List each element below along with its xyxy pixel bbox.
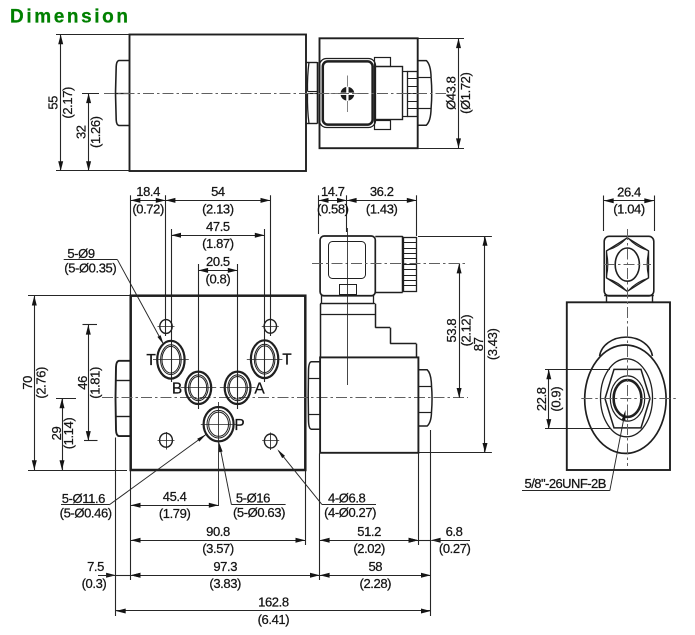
svg-text:Ø43.8: Ø43.8 xyxy=(443,76,458,110)
svg-text:(5-Ø0.35): (5-Ø0.35) xyxy=(64,260,116,275)
svg-text:(2.02): (2.02) xyxy=(353,541,385,556)
svg-text:(2.28): (2.28) xyxy=(360,576,392,591)
svg-text:(1.26): (1.26) xyxy=(88,116,103,148)
svg-text:(4-Ø0.27): (4-Ø0.27) xyxy=(324,505,376,520)
svg-text:22.8: 22.8 xyxy=(534,387,549,411)
svg-text:(6.41): (6.41) xyxy=(258,612,290,627)
svg-text:A: A xyxy=(254,380,265,397)
svg-text:5-Ø11.6: 5-Ø11.6 xyxy=(62,491,105,506)
svg-text:(1.43): (1.43) xyxy=(366,201,398,216)
svg-text:20.5: 20.5 xyxy=(206,254,230,269)
svg-text:(3.57): (3.57) xyxy=(202,541,234,556)
svg-text:45.4: 45.4 xyxy=(163,489,187,504)
svg-text:(0.8): (0.8) xyxy=(206,271,231,286)
svg-text:5-Ø16: 5-Ø16 xyxy=(236,491,270,506)
svg-text:(0.27): (0.27) xyxy=(439,541,471,556)
svg-text:T: T xyxy=(146,352,156,369)
svg-text:55: 55 xyxy=(46,96,61,110)
svg-text:(0.72): (0.72) xyxy=(132,201,164,216)
svg-text:51.2: 51.2 xyxy=(357,524,381,539)
svg-text:97.3: 97.3 xyxy=(213,559,237,574)
svg-text:7.5: 7.5 xyxy=(87,559,104,574)
svg-text:(3.43): (3.43) xyxy=(485,329,500,361)
svg-text:B: B xyxy=(172,380,182,397)
svg-text:(2.76): (2.76) xyxy=(34,367,49,399)
svg-text:26.4: 26.4 xyxy=(617,185,641,200)
svg-text:32: 32 xyxy=(74,125,89,139)
svg-text:4-Ø6.8: 4-Ø6.8 xyxy=(328,491,366,506)
svg-text:(Ø1.72): (Ø1.72) xyxy=(458,72,473,113)
svg-text:P: P xyxy=(234,417,244,434)
svg-text:Dimension: Dimension xyxy=(10,7,131,28)
svg-text:(0.9): (0.9) xyxy=(548,387,563,412)
svg-text:(0.3): (0.3) xyxy=(82,576,107,591)
svg-text:18.4: 18.4 xyxy=(136,184,160,199)
svg-text:(1.14): (1.14) xyxy=(61,418,76,450)
svg-text:(2.13): (2.13) xyxy=(202,201,234,216)
svg-text:(1.04): (1.04) xyxy=(613,202,645,217)
svg-text:5-Ø9: 5-Ø9 xyxy=(67,246,94,261)
svg-text:5/8"-26UNF-2B: 5/8"-26UNF-2B xyxy=(525,476,606,491)
svg-text:(1.79): (1.79) xyxy=(159,506,191,521)
svg-text:54: 54 xyxy=(211,184,225,199)
svg-text:(2.17): (2.17) xyxy=(60,87,75,119)
svg-text:(5-Ø0.46): (5-Ø0.46) xyxy=(60,505,112,520)
svg-text:90.8: 90.8 xyxy=(206,524,230,539)
svg-text:6.8: 6.8 xyxy=(446,524,463,539)
svg-text:14.7: 14.7 xyxy=(321,184,345,199)
svg-text:47.5: 47.5 xyxy=(206,219,230,234)
svg-text:162.8: 162.8 xyxy=(258,595,289,610)
svg-text:53.8: 53.8 xyxy=(444,319,459,343)
svg-text:T: T xyxy=(282,352,292,369)
svg-text:36.2: 36.2 xyxy=(370,184,394,199)
svg-text:(3.83): (3.83) xyxy=(209,576,241,591)
svg-text:(5-Ø0.63): (5-Ø0.63) xyxy=(233,505,285,520)
svg-text:(1.87): (1.87) xyxy=(202,236,234,251)
svg-text:(1.81): (1.81) xyxy=(87,367,102,399)
svg-text:(0.58): (0.58) xyxy=(317,201,349,216)
svg-text:58: 58 xyxy=(368,559,382,574)
svg-text:87: 87 xyxy=(471,337,486,351)
